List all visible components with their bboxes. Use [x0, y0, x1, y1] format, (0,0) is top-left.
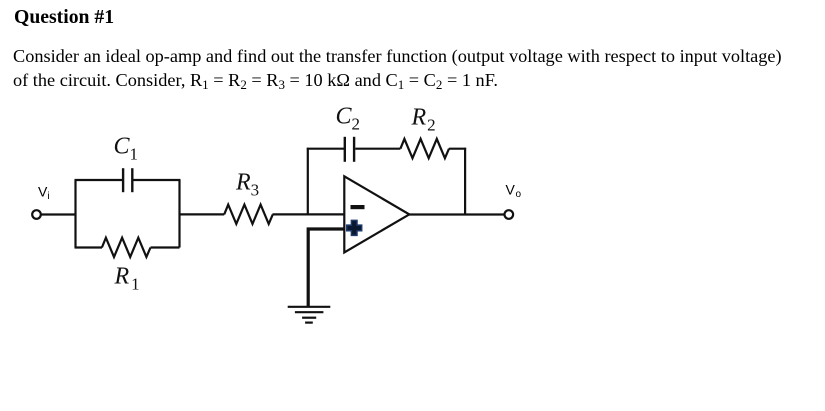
wire feedback right vertical — [464, 148, 466, 215]
svg-text:R3: R3 — [235, 170, 259, 200]
wire non-inverting input and ground stem — [308, 229, 344, 306]
wire parallel block right vertical — [178, 180, 180, 248]
wire top branch right segment — [134, 179, 181, 181]
wire feedback top left segment — [307, 148, 344, 150]
ground — [288, 307, 331, 323]
wire bottom branch left segment — [75, 246, 103, 248]
svg-text:Vo: Vo — [506, 182, 522, 201]
input terminal Vi — [32, 210, 41, 219]
wire R2 to feedback right corner — [449, 148, 466, 150]
op-amp U1 triangle — [344, 176, 409, 252]
svg-text:Vi: Vi — [38, 184, 50, 203]
capacitor C1 — [123, 168, 132, 192]
wire parallel block left vertical — [74, 180, 76, 248]
capacitor C2 — [345, 137, 354, 162]
wire op-amp output to Vo — [409, 213, 504, 215]
output terminal Vo — [505, 210, 514, 219]
resistor R2 — [400, 139, 449, 158]
wire parallel block to R3 — [180, 213, 225, 215]
wire C2 to R2 — [355, 148, 400, 150]
wire feedback tap vertical — [307, 148, 309, 215]
op-amp non-inverting input marker — [347, 220, 362, 235]
wire bottom branch right segment — [151, 246, 180, 248]
svg-text:C2: C2 — [336, 104, 361, 134]
resistor R3 — [224, 205, 273, 224]
svg-text:R1: R1 — [114, 264, 140, 294]
svg-text:R2: R2 — [411, 105, 436, 135]
svg-text:C1: C1 — [114, 134, 139, 164]
wire input to parallel block — [41, 213, 76, 215]
op-amp inverting input marker — [351, 205, 365, 209]
wire R3 to op-amp inverting input — [273, 213, 345, 215]
wire top branch left segment — [75, 179, 123, 181]
resistor R1 — [102, 238, 151, 257]
